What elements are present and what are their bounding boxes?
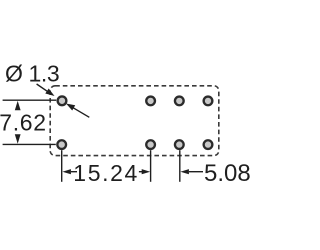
pad hole 1 (top-left)	[58, 96, 67, 105]
pad hole 2 (top row)	[146, 97, 155, 106]
pad hole 8 (bottom row)	[204, 140, 213, 149]
arrow left (5.08)	[180, 169, 189, 174]
svg-text:15.24: 15.24	[73, 160, 139, 186]
tail (5.08)	[189, 171, 203, 173]
arrow up (7.62)	[15, 101, 21, 110]
arrow down (7.62)	[15, 134, 21, 143]
extension line from pad 7 (vertical)	[179, 150, 181, 182]
pad hole 4 (top row)	[204, 97, 213, 106]
extension line bottom (7.62)	[3, 143, 56, 145]
extension line top (7.62)	[3, 99, 57, 101]
leader line 2 (diameter callout, lower-right)	[73, 108, 89, 118]
pad hole 3 (top row)	[175, 97, 184, 106]
pad hole 7 (bottom row)	[175, 140, 184, 149]
leader line 1 (diameter callout, upper-left)	[37, 84, 48, 92]
component body outline (dashed)	[50, 86, 219, 156]
svg-text:Ø 1.3: Ø 1.3	[5, 61, 59, 87]
extension line from pad 5 (vertical)	[61, 150, 63, 182]
arrow left (15.24)	[62, 169, 71, 174]
leader arrowhead 1	[45, 89, 54, 97]
svg-text:7.62: 7.62	[0, 110, 47, 136]
tail left (15.24)	[71, 171, 77, 173]
svg-text:5.08: 5.08	[204, 160, 250, 187]
pad hole 5 (bottom-left)	[57, 140, 66, 149]
leader arrowhead 2	[66, 104, 75, 111]
pad hole 6 (bottom row)	[146, 140, 155, 149]
tail right (15.24)	[139, 171, 143, 173]
arrow right (15.24)	[142, 169, 151, 174]
extension line from pad 6 (vertical)	[150, 150, 152, 182]
